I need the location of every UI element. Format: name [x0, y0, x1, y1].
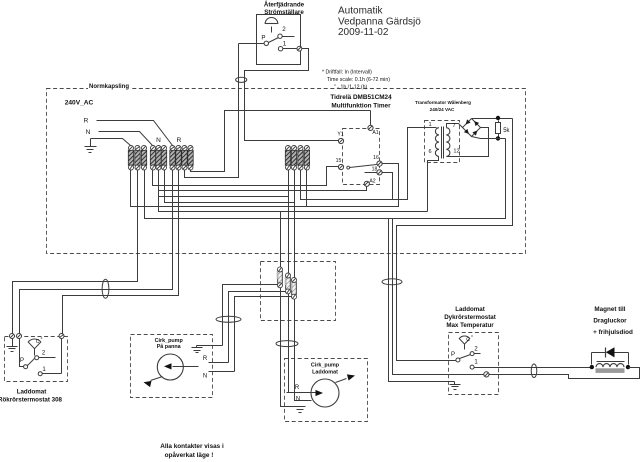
svg-text:Alla kontakter visas i: Alla kontakter visas i: [160, 443, 224, 450]
svg-text:Återfjädrande: Återfjädrande: [264, 2, 305, 9]
svg-text:240V_AC: 240V_AC: [65, 100, 94, 107]
svg-text:12: 12: [453, 149, 459, 155]
svg-text:16: 16: [373, 155, 379, 161]
svg-text:+ frihjulsdiod: + frihjulsdiod: [593, 329, 633, 336]
svg-text:Laddomat: Laddomat: [17, 389, 47, 396]
svg-text:2: 2: [282, 26, 286, 33]
svg-text:5k: 5k: [503, 128, 510, 134]
svg-text:C: C: [466, 337, 470, 343]
svg-text:1: 1: [283, 41, 287, 48]
svg-text:P: P: [20, 358, 24, 364]
svg-text:På panna: På panna: [157, 343, 182, 350]
svg-text:" - 1h /1-12 (h): " - 1h /1-12 (h): [334, 85, 368, 91]
svg-text:Automatik: Automatik: [338, 6, 383, 17]
svg-text:Dykrörstermostat: Dykrörstermostat: [444, 314, 496, 321]
svg-text:opåverkat läge !: opåverkat läge !: [165, 451, 214, 459]
svg-text:Multifunktion Timer: Multifunktion Timer: [331, 103, 391, 110]
svg-text:7: 7: [452, 123, 455, 129]
svg-text:18: 18: [372, 167, 378, 173]
svg-text:N: N: [296, 397, 300, 403]
svg-text:N: N: [86, 129, 91, 136]
svg-text:N: N: [156, 137, 161, 144]
svg-text:R: R: [84, 118, 89, 125]
svg-text:Max Temperatur: Max Temperatur: [446, 322, 494, 329]
svg-text:Rökrörstermostat 308: Rökrörstermostat 308: [0, 397, 63, 404]
svg-text:Strömställare: Strömställare: [264, 9, 304, 16]
svg-text:P: P: [451, 352, 455, 358]
svg-text:6: 6: [428, 149, 431, 155]
svg-text:R: R: [295, 385, 300, 391]
svg-text:A2: A2: [369, 179, 375, 185]
svg-text:P: P: [261, 35, 265, 42]
svg-text:240/24 VAC: 240/24 VAC: [430, 107, 455, 112]
svg-text:R: R: [203, 356, 208, 362]
svg-text:Time scale: 0.1h (6-72 min): Time scale: 0.1h (6-72 min): [327, 77, 390, 83]
svg-text:C: C: [36, 339, 40, 345]
svg-text:Vedpanna Gärdsjö: Vedpanna Gärdsjö: [338, 16, 421, 27]
svg-text:Cirk_pump: Cirk_pump: [311, 363, 340, 369]
svg-text:Transformator Wålenberg: Transformator Wålenberg: [415, 99, 471, 105]
svg-text:15: 15: [336, 158, 342, 164]
svg-text:Normkapsling: Normkapsling: [89, 84, 129, 90]
svg-text:N: N: [203, 374, 207, 380]
svg-text:2009-11-02: 2009-11-02: [338, 27, 389, 38]
svg-text:A1: A1: [372, 130, 378, 136]
svg-text:': ': [390, 99, 391, 105]
svg-text:Magnet till: Magnet till: [594, 306, 625, 313]
svg-text:1: 1: [428, 122, 431, 128]
svg-text:Y1: Y1: [337, 132, 343, 138]
svg-text:Tidrelä DMB51CM24: Tidrelä DMB51CM24: [330, 94, 392, 101]
svg-text:°: °: [41, 337, 43, 343]
svg-text:* Driftfall: In (Intervall): * Driftfall: In (Intervall): [322, 70, 372, 76]
svg-text:°: °: [471, 335, 473, 341]
svg-text:R: R: [177, 137, 182, 144]
svg-text:Laddomat: Laddomat: [312, 370, 338, 376]
svg-text:Dragluckor: Dragluckor: [593, 318, 627, 325]
svg-text:Cirk_pump: Cirk_pump: [155, 338, 184, 344]
svg-text:Laddomat: Laddomat: [455, 306, 485, 313]
